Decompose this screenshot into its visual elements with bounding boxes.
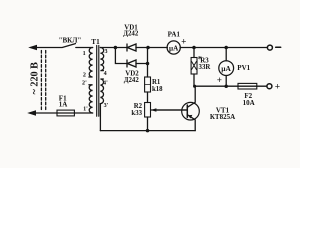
svg-text:µA: µA — [221, 64, 231, 73]
fuse F1 — [57, 110, 74, 116]
meter PV1 — [225, 48, 227, 61]
svg-text:4': 4' — [103, 81, 108, 87]
transformer secondary winding 4'-3' — [100, 79, 103, 104]
svg-text:2': 2' — [82, 81, 87, 87]
terminal minus — [267, 45, 272, 50]
wire mains bottom — [30, 112, 57, 114]
transformer primary winding 1-2 — [89, 48, 93, 78]
connector dashed line left — [40, 51, 42, 112]
arrow mains top — [28, 45, 37, 51]
svg-text:+: + — [217, 75, 222, 85]
svg-text:КТ825А: КТ825А — [210, 113, 235, 121]
transformer core — [96, 46, 98, 117]
fuse F2 — [238, 83, 257, 89]
junction PV1 top — [224, 46, 228, 50]
wire R2 bottom — [147, 117, 149, 131]
emitter with arrow — [187, 115, 195, 131]
wire to PA1 — [148, 47, 167, 49]
wire R3 node to PV1 node — [194, 47, 226, 49]
svg-text:µA: µA — [169, 44, 179, 52]
svg-text:PA1: PA1 — [168, 30, 181, 38]
svg-text:Д242: Д242 — [124, 77, 140, 84]
svg-text:33R: 33R — [199, 64, 212, 71]
wire VD2 branch down — [115, 48, 127, 64]
svg-text:1A: 1A — [59, 101, 68, 109]
transformer primary winding 2'-1' — [89, 85, 93, 113]
wire to minus terminal — [226, 47, 267, 49]
svg-text:+: + — [275, 82, 280, 92]
wire plus rail — [195, 85, 238, 87]
terminal plus — [267, 84, 272, 89]
svg-text:3: 3 — [104, 49, 107, 55]
svg-text:k33: k33 — [131, 110, 142, 117]
svg-text:3': 3' — [104, 103, 109, 109]
meter PA1 — [167, 41, 180, 54]
wire PA1 to R3 node — [180, 47, 194, 49]
svg-text:k18: k18 — [152, 86, 163, 93]
svg-text:"ВКЛ": "ВКЛ" — [59, 36, 82, 44]
diode VD2 — [127, 60, 148, 67]
resistor R1 — [147, 64, 149, 78]
junction R2 bottom rail — [146, 129, 150, 133]
svg-text:PV1: PV1 — [237, 64, 250, 72]
svg-text:1': 1' — [83, 106, 88, 112]
potentiometer R2 — [145, 103, 151, 118]
svg-text:2: 2 — [83, 73, 86, 79]
svg-text:~ 220 В: ~ 220 В — [30, 62, 41, 95]
transistor VT1 — [182, 102, 200, 120]
resistor R3 — [193, 48, 195, 58]
junction R3 top — [192, 46, 196, 50]
svg-text:+: + — [181, 37, 186, 47]
wire R1 to R2 — [147, 92, 149, 103]
wire secondary 3' down — [99, 104, 101, 131]
junction diode output — [146, 46, 150, 50]
switch SA "ВКЛ" — [63, 44, 76, 48]
collector — [187, 86, 195, 107]
junction PV1 bottom — [224, 84, 228, 88]
wire secondary top to rectifier — [100, 47, 127, 49]
transformer secondary winding 3-4 — [100, 48, 103, 71]
junction VD2-R1 — [146, 62, 150, 66]
diode VD1 — [127, 44, 148, 51]
wire VD2 out up — [147, 48, 149, 64]
junction collector rail — [193, 85, 196, 88]
svg-text:Д242: Д242 — [123, 31, 139, 38]
wire bottom rail — [100, 130, 195, 132]
arrow mains bottom — [27, 110, 36, 116]
svg-text:4: 4 — [104, 71, 107, 77]
svg-text:1: 1 — [83, 51, 86, 57]
wire mains top — [31, 47, 62, 49]
connector dashed line right — [45, 51, 47, 112]
svg-text:10A: 10A — [243, 99, 255, 107]
svg-text:T1: T1 — [91, 38, 100, 46]
junction VD2 branch — [114, 46, 118, 50]
